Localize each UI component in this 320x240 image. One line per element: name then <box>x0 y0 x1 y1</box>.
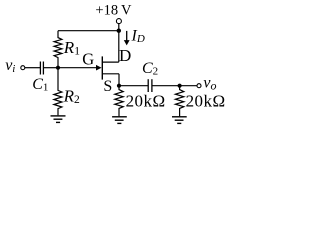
wire +18V stem <box>118 24 120 31</box>
svg-text:D: D <box>119 46 131 65</box>
capacitor C1 plates <box>39 62 41 75</box>
resistor RS 20k left <box>115 86 123 117</box>
+18V terminal circle <box>116 19 121 24</box>
ground below R2 <box>51 115 66 117</box>
wire C1 to gate node <box>43 67 58 69</box>
wire drain vertical <box>118 31 120 62</box>
svg-text:20kΩ: 20kΩ <box>126 92 166 111</box>
wire drain horizontal <box>102 61 119 63</box>
terminal vo circle <box>197 84 201 88</box>
wire source horizontal <box>102 73 119 75</box>
resistor R1 <box>54 31 62 68</box>
svg-text:vo: vo <box>203 74 216 92</box>
svg-text:R2: R2 <box>63 86 80 106</box>
wire gate <box>58 67 97 69</box>
current ID arrowhead <box>124 40 130 45</box>
svg-text:ID: ID <box>131 27 145 45</box>
ground below RS <box>112 116 127 118</box>
transistor gate arrowhead <box>96 65 102 71</box>
wire C2 to vo node <box>152 85 180 87</box>
node junction gate divider <box>56 66 60 70</box>
node junction source <box>117 84 121 88</box>
node junction output <box>178 84 182 88</box>
svg-text:S: S <box>103 78 112 95</box>
node junction at +18V <box>117 29 121 33</box>
svg-text:C2: C2 <box>142 60 158 78</box>
wire bottom rail S to C2 <box>119 85 148 87</box>
svg-text:vi: vi <box>5 57 15 75</box>
current ID arrow line <box>126 31 128 41</box>
wire input to C1 <box>25 67 41 69</box>
svg-text:C1: C1 <box>32 76 48 94</box>
terminal vi circle <box>21 66 25 70</box>
transistor Q1 channel <box>101 56 103 79</box>
wire top rail from R1 top to +18V node <box>58 30 119 32</box>
svg-text:20kΩ: 20kΩ <box>186 92 226 111</box>
svg-text:+18 V: +18 V <box>95 2 132 18</box>
wire vo node to terminal <box>180 85 197 87</box>
resistor RL 20k right <box>175 86 183 117</box>
ground below RL <box>172 116 187 118</box>
resistor R2 <box>54 68 62 116</box>
svg-text:G: G <box>82 50 94 69</box>
capacitor C2 plates <box>147 79 149 92</box>
svg-text:R1: R1 <box>63 38 80 58</box>
wire source vertical <box>118 74 120 86</box>
